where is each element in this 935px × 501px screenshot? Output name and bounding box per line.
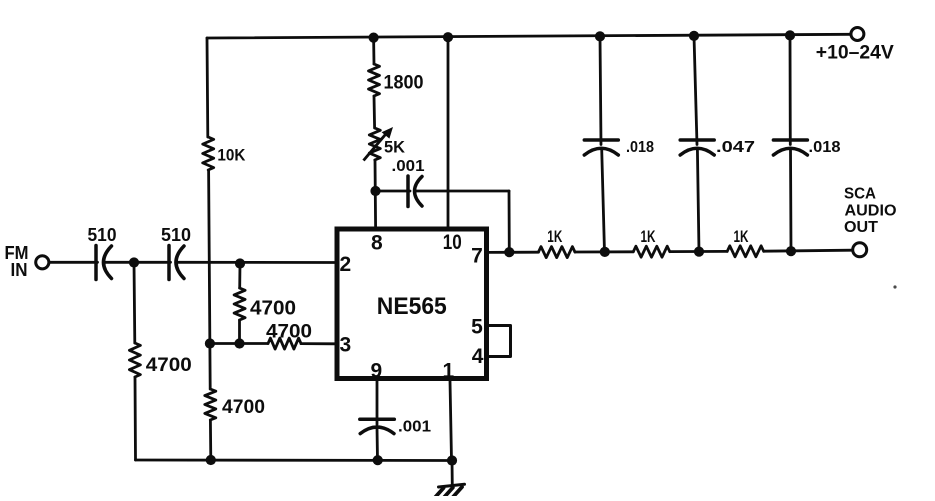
svg-text:.001: .001 — [398, 419, 431, 436]
svg-text:10: 10 — [443, 231, 462, 254]
svg-text:8: 8 — [371, 232, 383, 255]
svg-text:510: 510 — [161, 225, 191, 245]
svg-text:OUT: OUT — [844, 219, 878, 236]
svg-text:.018: .018 — [626, 139, 654, 156]
svg-text:SCA: SCA — [844, 186, 876, 203]
svg-text:1: 1 — [443, 360, 455, 383]
svg-text:3: 3 — [339, 334, 351, 357]
svg-text:4700: 4700 — [146, 355, 192, 376]
svg-text:9: 9 — [371, 360, 383, 383]
svg-text:AUDIO: AUDIO — [845, 202, 897, 219]
svg-text:4: 4 — [472, 345, 484, 368]
svg-text:.001: .001 — [392, 158, 425, 175]
svg-text:1K: 1K — [547, 227, 562, 246]
svg-text:5K: 5K — [384, 138, 406, 157]
svg-text:1K: 1K — [734, 227, 749, 246]
svg-text:1K: 1K — [641, 227, 656, 246]
svg-text:2: 2 — [339, 253, 351, 276]
svg-text:+10–24V: +10–24V — [816, 43, 894, 64]
svg-text:510: 510 — [88, 225, 117, 245]
svg-text:7: 7 — [471, 245, 483, 268]
svg-text:NE565: NE565 — [377, 293, 447, 320]
svg-text:4700: 4700 — [222, 397, 265, 418]
svg-text:4700: 4700 — [266, 322, 312, 343]
svg-text:IN: IN — [11, 260, 28, 280]
svg-text:.047: .047 — [716, 139, 755, 156]
svg-text:10K: 10K — [217, 146, 246, 165]
svg-text:.018: .018 — [809, 139, 841, 156]
svg-text:4700: 4700 — [250, 297, 296, 319]
svg-text:1800: 1800 — [384, 73, 424, 94]
svg-text:5: 5 — [471, 316, 483, 339]
